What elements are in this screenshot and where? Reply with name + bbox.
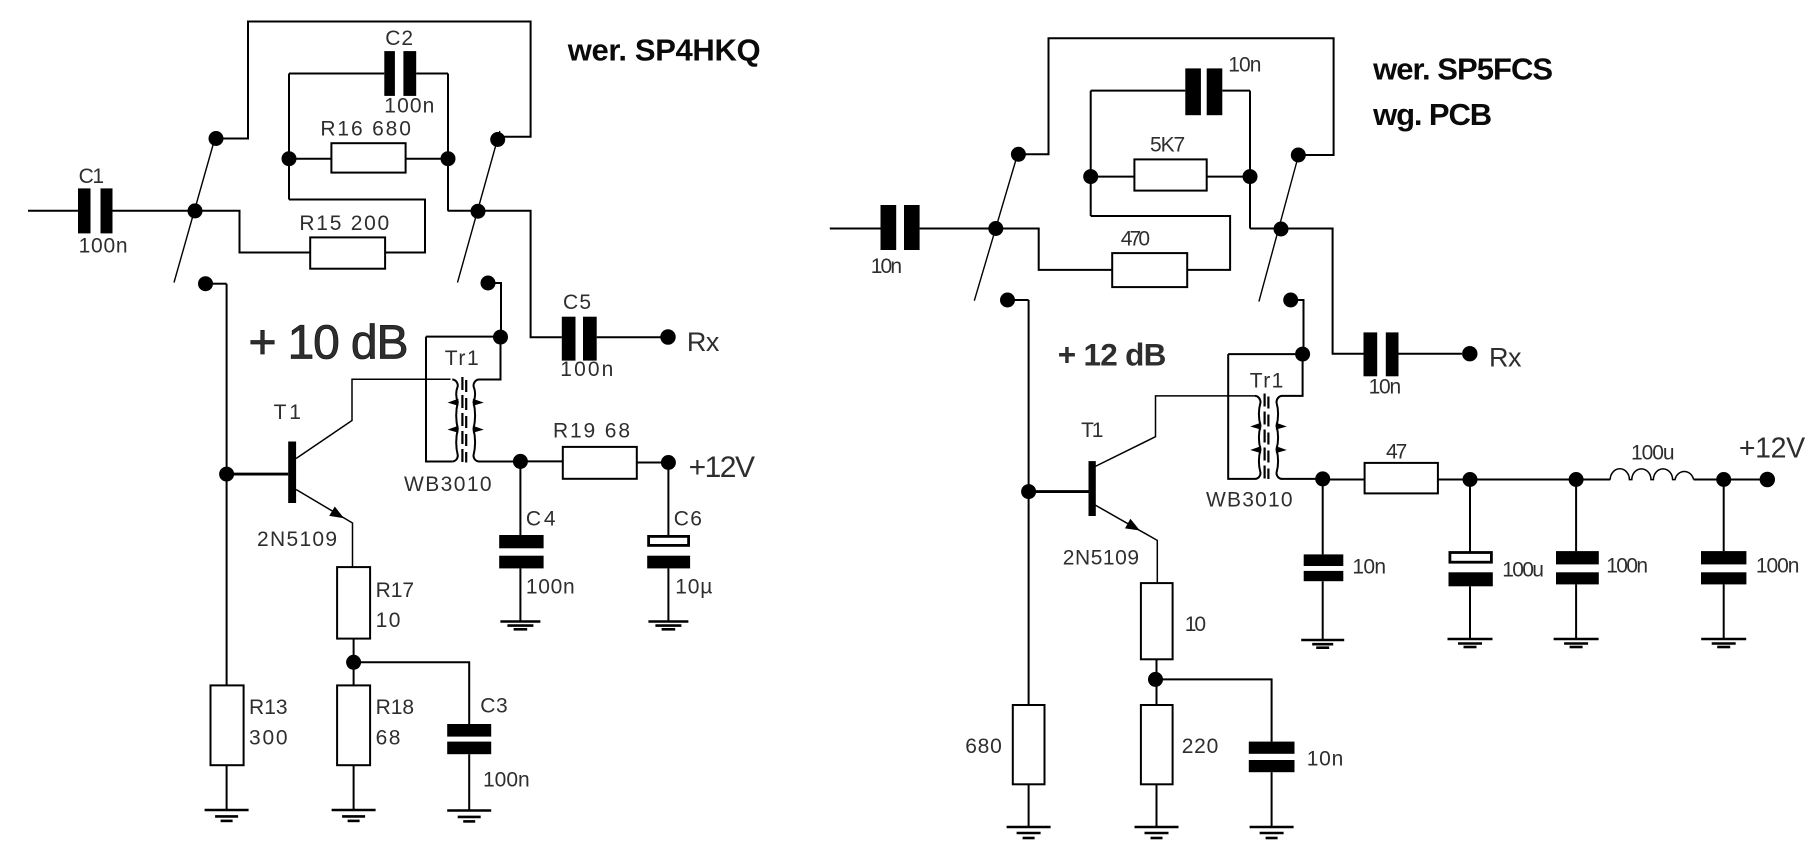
svg-text:wg. PCB: wg. PCB (1372, 97, 1492, 132)
svg-text:100n: 100n (483, 769, 530, 792)
node 5K7 left (1083, 169, 1098, 184)
terminal Rx right (1462, 346, 1477, 361)
wire node A vertical (288, 74, 290, 200)
capacitor C6 electrolytic (647, 536, 690, 568)
node S4 pole (1274, 222, 1289, 237)
svg-text:100n: 100n (384, 94, 434, 117)
node S4 throw contact (1283, 293, 1298, 308)
wire R13 to ground (226, 765, 228, 810)
node transformer top junction (493, 330, 508, 345)
wire R19 to +12V node (637, 462, 669, 464)
ground R13 (205, 810, 249, 821)
capacitor bottom 10n (1249, 742, 1295, 773)
capacitor C1 (78, 188, 113, 233)
ground bottom 10n (1250, 827, 1294, 838)
transformer Tr1 right primary outer loop (1228, 354, 1255, 479)
wire input left (28, 210, 78, 212)
svg-text:+ 10 dB: + 10 dB (249, 317, 409, 370)
svg-text:C2: C2 (385, 27, 413, 50)
capacitor input 10n right (881, 205, 920, 250)
ground C3 (447, 811, 491, 822)
ground R18 (332, 810, 376, 821)
ground 100n mid (1554, 639, 1599, 647)
wire R15 right to node A (289, 200, 425, 253)
wire 680 to ground (1028, 784, 1030, 827)
svg-text:300: 300 (249, 726, 288, 749)
svg-text:+12V: +12V (1739, 433, 1805, 465)
wire 100u to ground (1469, 586, 1471, 639)
capacitor 100n mid (1556, 551, 1599, 584)
wire rail node2 to 100n cap (1575, 480, 1577, 552)
wire divider node to C3 (354, 662, 470, 724)
svg-text:10: 10 (376, 609, 401, 632)
transformer Tr1 primary outer loop (426, 337, 452, 462)
wire S3 throw to base line (1014, 299, 1029, 301)
resistor R13 (211, 685, 244, 765)
transformer Tr1 core (462, 377, 466, 463)
transformer Tr1 right right winding (1276, 396, 1287, 479)
node S4 top contact (1291, 148, 1306, 163)
capacitor C5 (562, 317, 597, 361)
svg-text:100n: 100n (79, 235, 128, 258)
svg-text:68: 68 (376, 726, 401, 749)
capacitor C4 (499, 535, 543, 568)
svg-text:2N5109: 2N5109 (257, 528, 337, 551)
wire C2 branch right (416, 73, 448, 75)
node +12V left (661, 455, 676, 470)
wire output node to C4 (519, 461, 521, 535)
node rail 2 (1569, 472, 1584, 487)
inductor 100u (1610, 469, 1693, 480)
wire transformer top loop right (1228, 354, 1302, 396)
svg-text:470: 470 (1121, 228, 1150, 251)
wire C5 to Rx terminal (597, 336, 661, 338)
switch S3 blade (974, 150, 1019, 301)
resistor R18 (337, 685, 370, 765)
svg-text:220: 220 (1182, 735, 1219, 758)
wire rail node3 to 100n cap right (1723, 480, 1725, 552)
transistor T1 emitter arrow (329, 507, 344, 519)
wire R18 to ground (353, 765, 355, 810)
wire node B vertical to center line (447, 74, 449, 211)
svg-text:WB3010: WB3010 (404, 473, 492, 496)
transistor T1 bar (288, 442, 296, 504)
transformer Tr1 left winding (448, 380, 459, 462)
wire S2 pole to output branch (448, 211, 562, 338)
wire inductor to +12V terminal (1694, 479, 1760, 481)
wire bottom 10n to ground (1271, 772, 1273, 827)
wire S2 throw down to transformer node (495, 283, 502, 337)
node output junction left circuit (513, 454, 528, 469)
svg-text:Tr1: Tr1 (1250, 369, 1284, 392)
terminal +12V right (1760, 472, 1775, 487)
node rail 3 (1716, 472, 1731, 487)
wire 100n right to ground (1723, 584, 1725, 639)
svg-text:47: 47 (1386, 441, 1407, 464)
wire 10 to 220 (1156, 659, 1158, 705)
ground 100n right (1701, 639, 1746, 647)
svg-text:100u: 100u (1631, 442, 1675, 465)
wire center line to 470 resistor (1003, 229, 1113, 270)
wire 470 right to feedback vertical (1091, 216, 1230, 270)
svg-text:C3: C3 (480, 694, 508, 717)
node S1 throw contact (198, 276, 213, 291)
svg-text:+ 12 dB: + 12 dB (1058, 337, 1167, 373)
resistor R19 (563, 447, 637, 479)
ground C4 (500, 622, 540, 630)
wire 220 to ground (1156, 784, 1158, 827)
resistor 220 (1141, 705, 1173, 784)
switch S1 blade (174, 135, 216, 283)
node S3 top contact (1011, 147, 1026, 162)
node emitter divider right (1148, 672, 1163, 687)
wire top 10n branch (1091, 90, 1250, 92)
svg-text:100n: 100n (1606, 555, 1648, 578)
wire 47 to supply rail (1438, 479, 1610, 481)
wire R16 right lead (406, 158, 448, 160)
svg-text:C6: C6 (674, 508, 702, 531)
transistor T1 collector wire to Tr1 primary (296, 379, 450, 458)
wire secondary bottom to output node (479, 461, 520, 463)
node emitter divider (346, 655, 361, 670)
node rail 1 (1463, 472, 1478, 487)
transistor T1 right emitter wire (1095, 505, 1157, 583)
node S1 pole (188, 203, 203, 218)
svg-text:wer. SP4HKQ: wer. SP4HKQ (567, 33, 761, 68)
wire +12V node to C6 (667, 463, 669, 537)
wire 5K7 left lead (1091, 176, 1135, 178)
node S2 pole (471, 204, 486, 219)
transformer Tr1 right winding (473, 380, 484, 462)
ground 680 (1007, 827, 1051, 838)
wire feedback loop top (S1 top to S2 top) (221, 22, 531, 139)
svg-text:10µ: 10µ (675, 576, 712, 599)
node S2 throw contact (481, 276, 496, 291)
svg-text:10n: 10n (1228, 54, 1261, 77)
wire mid 10n to ground (1322, 581, 1324, 640)
capacitor output 10n right (1364, 332, 1399, 376)
transistor T1 emitter wire (296, 490, 352, 568)
transformer Tr1 right core (1265, 394, 1269, 480)
terminal Rx left (660, 329, 675, 344)
capacitor top 10n (1185, 68, 1222, 115)
wire transformer top loop (426, 337, 501, 380)
switch S2 blade (458, 131, 500, 283)
transistor T1 right collector wire to Tr1 (1095, 396, 1255, 467)
svg-text:10n: 10n (1369, 376, 1402, 399)
node S3 pole (988, 221, 1003, 236)
wire base vertical line right (1028, 300, 1030, 705)
wire feedback left vertical right circuit (1090, 91, 1092, 216)
wire R16 left lead (289, 158, 331, 160)
wire C3 to ground (468, 754, 470, 810)
svg-text:100n: 100n (1756, 555, 1800, 578)
wire R17 to R18 (353, 639, 355, 686)
resistor 47 (1365, 463, 1438, 494)
svg-text:WB3010: WB3010 (1206, 488, 1293, 511)
resistor R17 (337, 567, 370, 639)
svg-text:5K7: 5K7 (1150, 134, 1185, 157)
transistor T1 base wire (227, 473, 289, 476)
node S2 top contact (490, 132, 505, 147)
node B R16 right junction (441, 151, 456, 166)
wire rail node1 to 100u cap (1469, 480, 1471, 553)
svg-text:C1: C1 (79, 165, 104, 188)
node output junction right circuit (1315, 471, 1330, 486)
capacitor C3 (447, 724, 491, 754)
resistor 5K7 (1134, 159, 1206, 190)
wire divider node to bottom 10n (1156, 679, 1272, 741)
wire 100n mid to ground (1575, 584, 1577, 639)
svg-text:R18: R18 (376, 696, 415, 719)
wire input right (830, 228, 881, 230)
wire C2 branch left (289, 73, 384, 75)
wire input cap to S3 pole (920, 228, 996, 230)
wire C6 to ground (667, 568, 669, 621)
wire node to R19 (520, 460, 562, 462)
transistor T1 right base wire (1029, 490, 1089, 493)
wire S4 pole to output branch (1250, 229, 1364, 354)
svg-text:10n: 10n (1307, 747, 1344, 770)
svg-text:R19 68: R19 68 (553, 420, 630, 443)
wire secondary bottom to output node right (1282, 478, 1323, 480)
svg-text:C4: C4 (526, 508, 556, 531)
svg-text:Rx: Rx (1489, 343, 1522, 373)
svg-text:2N5109: 2N5109 (1063, 546, 1139, 569)
node S3 throw contact (1000, 293, 1015, 308)
svg-text:T1: T1 (1081, 419, 1103, 442)
svg-text:100u: 100u (1502, 558, 1544, 581)
node base junction right (1021, 484, 1036, 499)
ground 220 (1135, 827, 1179, 838)
transistor T1 right bar (1089, 461, 1096, 516)
ground 100u (1448, 639, 1493, 647)
svg-text:R17: R17 (376, 579, 415, 602)
node S1 top contact (209, 131, 224, 146)
svg-text:wer. SP5FCS: wer. SP5FCS (1372, 52, 1553, 87)
resistor R16 (331, 143, 405, 172)
capacitor mid 10n (1304, 554, 1344, 581)
transformer Tr1 right left winding (1250, 396, 1261, 479)
svg-text:10n: 10n (871, 255, 902, 278)
wire base vertical line (226, 284, 228, 686)
wire C1 to switch S1 pole (113, 210, 196, 212)
resistor 680 (1013, 705, 1045, 784)
wire 5K7 right lead (1207, 176, 1250, 178)
resistor R15 (310, 237, 385, 268)
capacitor C2 (384, 51, 416, 96)
svg-text:Tr1: Tr1 (445, 347, 479, 370)
svg-text:+12V: +12V (689, 451, 755, 484)
wire node to 47 resistor (1323, 479, 1365, 481)
svg-text:R16 680: R16 680 (320, 118, 411, 141)
wire S4 throw down to transformer node (1297, 300, 1304, 353)
node transformer top right circuit (1295, 347, 1310, 362)
wire feedback loop top right circuit (1024, 38, 1334, 155)
wire output cap to Rx right (1399, 353, 1463, 355)
capacitor 100n right (1701, 551, 1746, 584)
switch S4 blade (1259, 148, 1301, 302)
ground mid 10n (1301, 640, 1344, 648)
node 5K7 right (1243, 169, 1258, 184)
svg-text:100n: 100n (526, 576, 575, 599)
wire center line to R15 left (201, 211, 310, 253)
resistor 470 (1112, 253, 1187, 287)
ground C6 (648, 622, 688, 630)
wire C4 to ground (519, 568, 521, 621)
svg-text:Rx: Rx (687, 327, 720, 357)
capacitor 100u electrolytic (1449, 553, 1493, 587)
svg-text:R13: R13 (249, 696, 288, 719)
wire output node to mid 10n cap (1322, 479, 1324, 555)
svg-text:R15 200: R15 200 (299, 212, 389, 235)
svg-text:10: 10 (1185, 613, 1206, 636)
transistor T1 right emitter arrow (1125, 519, 1140, 531)
resistor 10 right (1141, 583, 1173, 659)
node A R16 left junction (282, 151, 297, 166)
svg-text:10n: 10n (1352, 555, 1386, 578)
wire S1 throw to base line (212, 283, 227, 285)
wire feedback right vertical to center line (1249, 91, 1251, 229)
node base junction (219, 467, 234, 482)
svg-text:680: 680 (965, 735, 1002, 758)
svg-text:C5: C5 (563, 291, 591, 314)
